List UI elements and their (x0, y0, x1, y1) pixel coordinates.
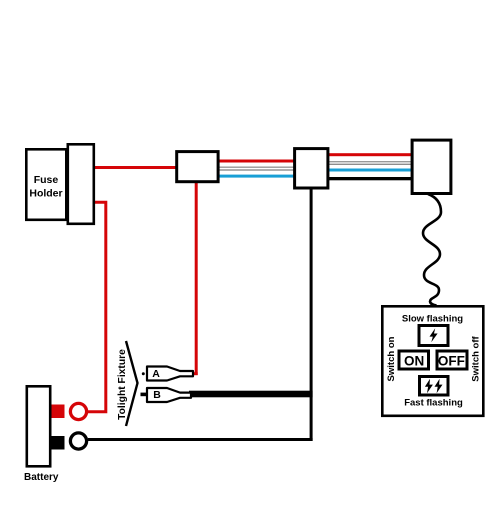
wire red connector block 2 to flasher unit (328, 153, 412, 156)
svg-text:ON: ON (404, 353, 424, 368)
switch OFF button box (437, 351, 467, 369)
bracket to light fixture (126, 341, 138, 426)
svg-text:Fuse: Fuse (34, 174, 59, 186)
battery positive terminal (red square) (52, 405, 65, 419)
spade terminal A (147, 367, 193, 381)
label Fuse Holder (29, 174, 62, 199)
svg-text:B: B (153, 389, 161, 401)
wire thick black from spade terminal B to junction (189, 391, 313, 398)
wire red connector block 1 down to spade terminal A (195, 182, 198, 375)
svg-text:Switch off: Switch off (470, 335, 481, 381)
switch panel box (382, 306, 483, 416)
wire black connector block 2 down to battery negative line (310, 188, 313, 441)
svg-text:Fast flashing: Fast flashing (404, 398, 463, 409)
wire red connector block 1 to connector block 2 (218, 160, 294, 163)
svg-text:Holder: Holder (29, 187, 62, 199)
battery negative terminal (black square) (52, 436, 65, 450)
svg-text:OFF: OFF (438, 353, 465, 368)
battery box (27, 386, 50, 466)
flasher unit box (412, 140, 451, 193)
wire blue connector block 1 to connector block 2 (218, 175, 294, 178)
svg-text:A: A (152, 368, 160, 380)
battery negative ring terminal (black circle) (70, 433, 86, 449)
svg-text:Battery: Battery (24, 472, 59, 483)
slow flashing button box (419, 326, 448, 346)
fuse holder cap box (68, 144, 94, 224)
switch ON button box (399, 351, 429, 369)
connector block 1 (177, 152, 218, 182)
connector block 2 (295, 149, 328, 188)
wire red fuse holder down to battery positive (87, 201, 107, 414)
wire black connector block 2 to flasher unit (328, 177, 412, 180)
fuse holder body box (26, 149, 66, 220)
svg-text:Switch on: Switch on (386, 336, 397, 381)
fast flashing button box (420, 377, 449, 396)
wire gray pair connector block 2 to flasher unit (328, 161, 412, 162)
svg-text:Slow flashing: Slow flashing (402, 314, 463, 325)
spade terminal B (147, 388, 191, 402)
wire gray pair connector block 1 to connector block 2 (218, 167, 294, 168)
spade terminal B stub (141, 393, 148, 397)
fast flashing double bolt icon (425, 379, 433, 393)
wire black battery negative to junction (88, 438, 313, 441)
slow flashing bolt icon (430, 328, 438, 342)
wire red fuse holder to connector block 1 (94, 166, 176, 169)
wire blue connector block 2 to flasher unit (328, 169, 412, 172)
spade terminal A dot (142, 372, 145, 375)
battery positive ring terminal (red circle) (70, 403, 86, 419)
wire wavy flasher unit to switch panel (423, 194, 441, 306)
svg-text:Tolight Fixture: Tolight Fixture (117, 349, 128, 420)
